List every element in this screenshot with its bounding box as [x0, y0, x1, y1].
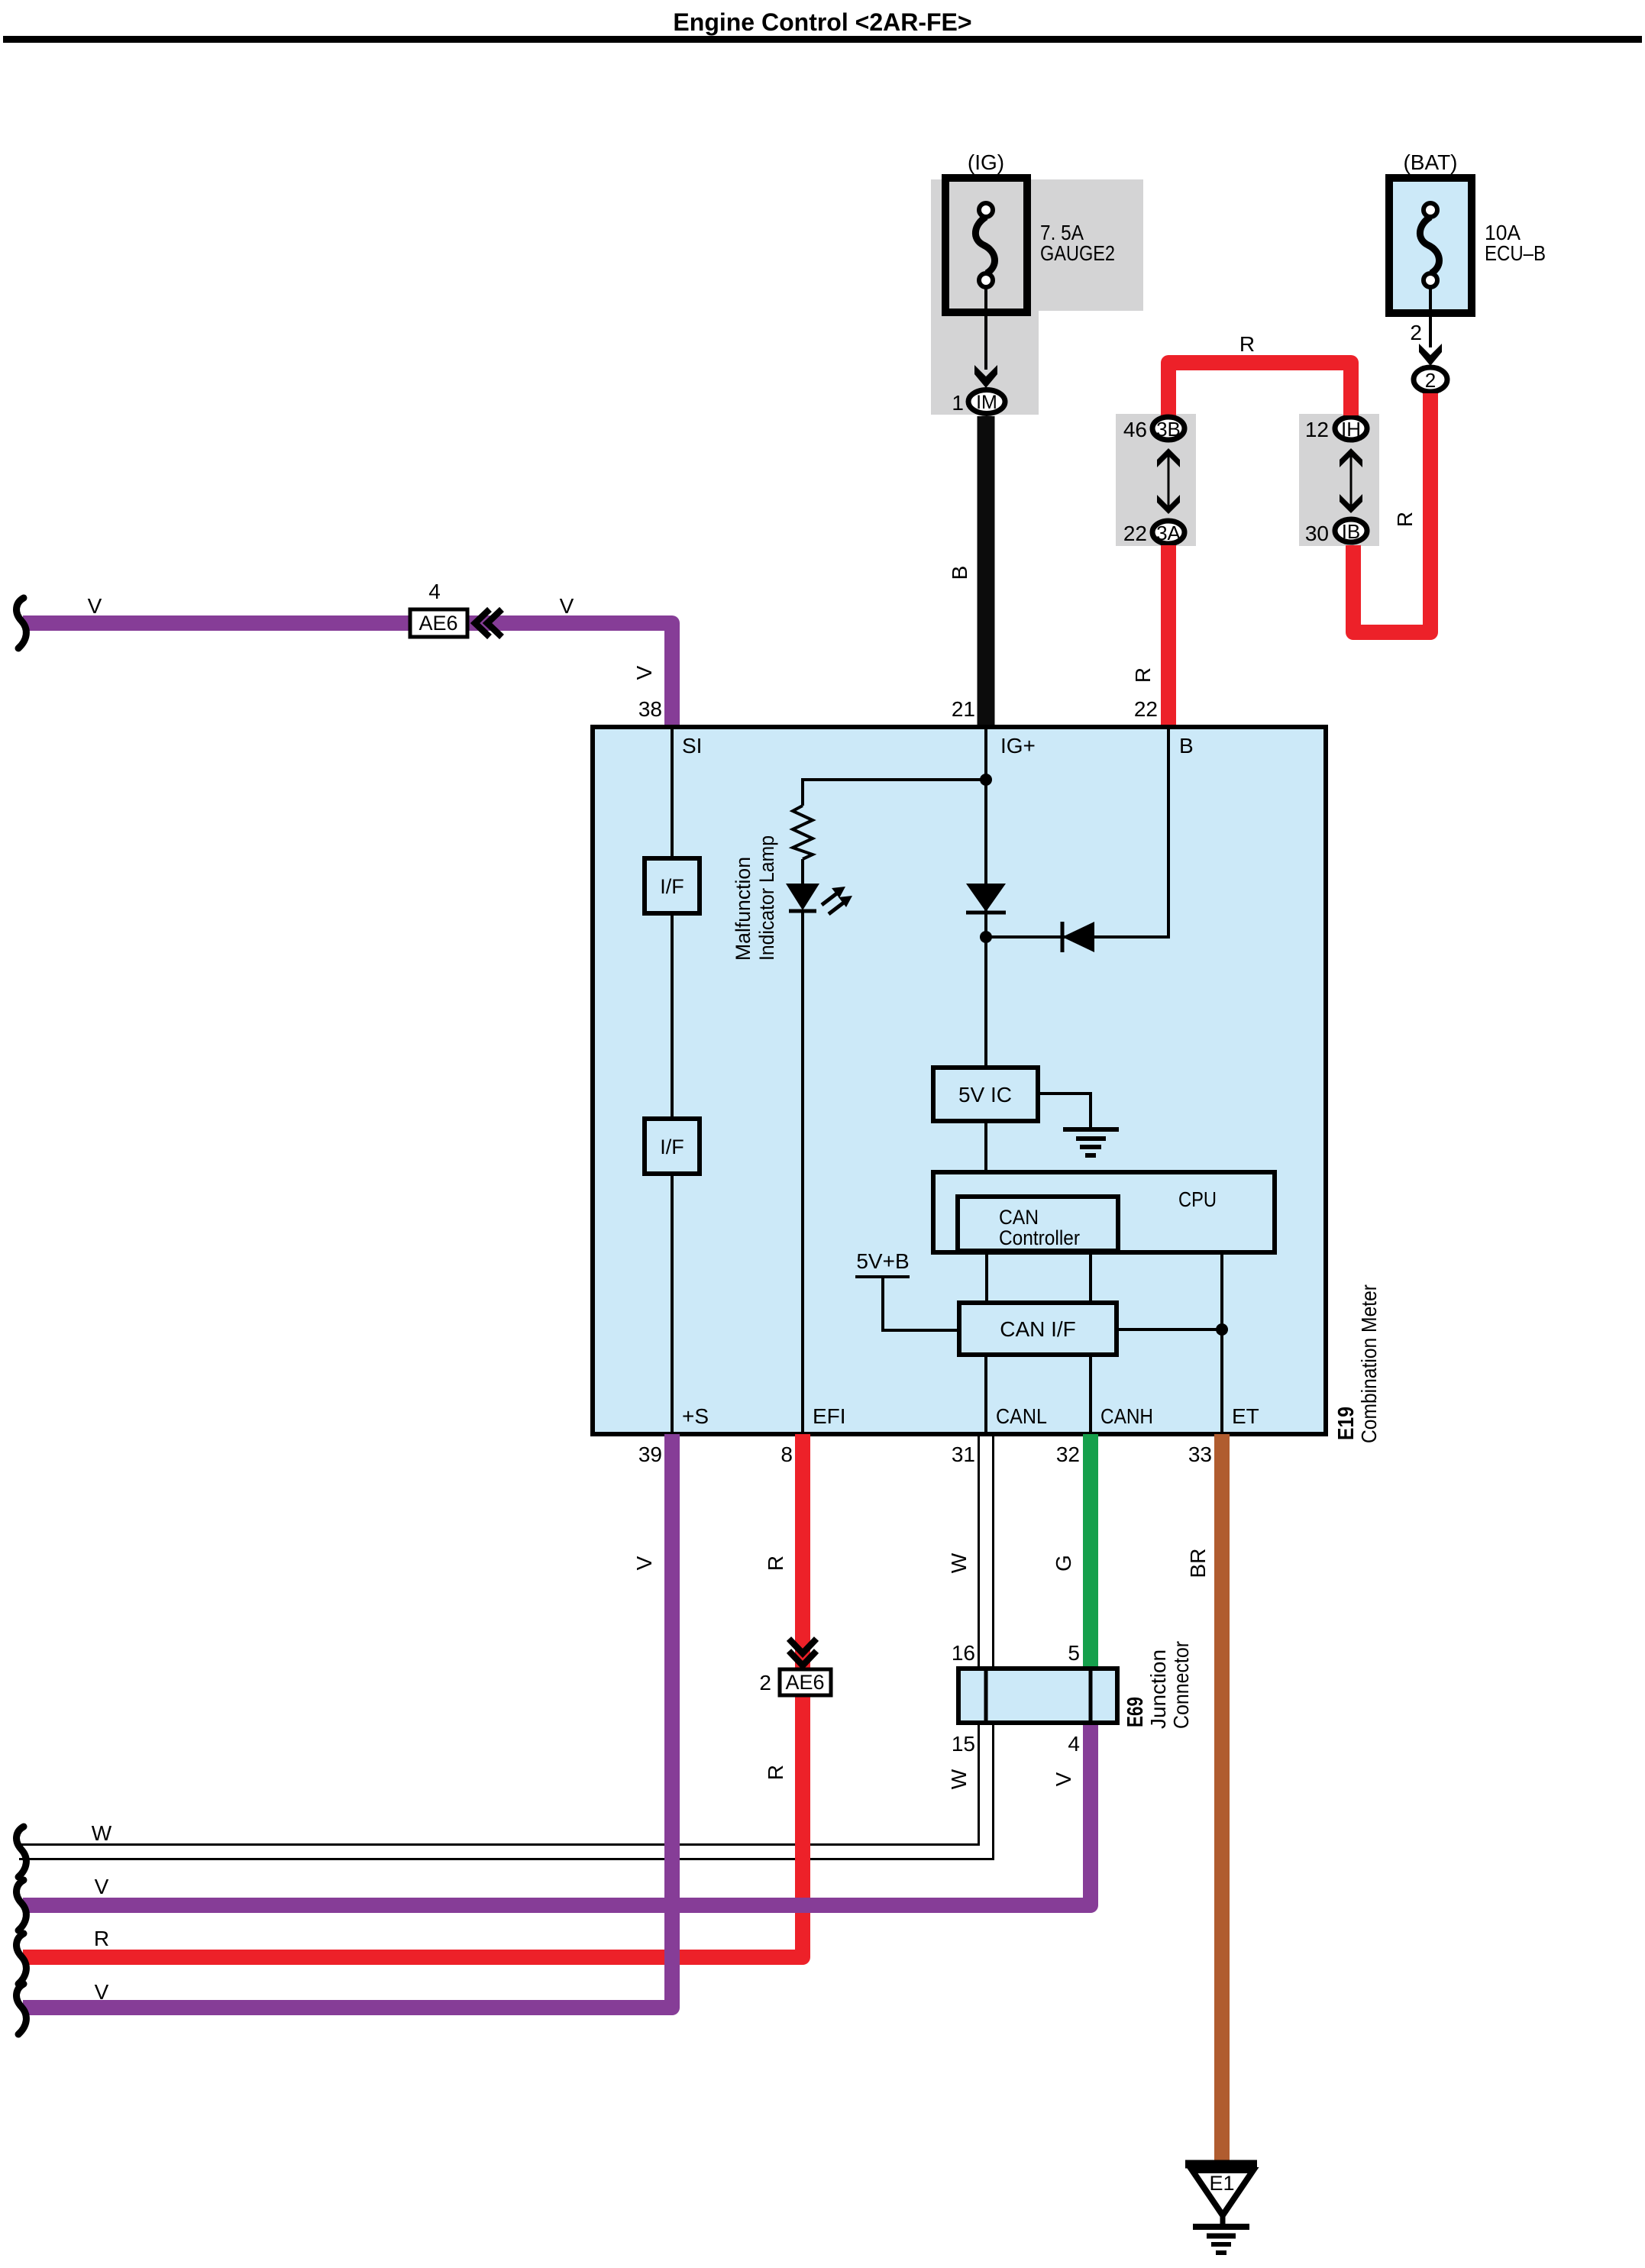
node at diode join	[980, 931, 992, 943]
combination meter box E19	[593, 727, 1326, 1434]
svg-text:CAN: CAN	[999, 1206, 1039, 1229]
svg-text:W: W	[92, 1821, 112, 1845]
svg-text:R: R	[764, 1765, 787, 1780]
svg-text:8: 8	[780, 1443, 793, 1466]
svg-text:46: 46	[1123, 418, 1147, 441]
resistor (MIL)	[793, 806, 813, 859]
svg-text:12: 12	[1305, 418, 1329, 441]
wire node to ET pin	[1220, 1329, 1223, 1434]
svg-text:IG+: IG+	[1000, 734, 1036, 758]
svg-text:Connector: Connector	[1169, 1641, 1193, 1729]
svg-text:R: R	[764, 1556, 787, 1571]
wire V: junction pin 4 down, left to break	[23, 1723, 1091, 1905]
wires CAN controller to CAN I/F	[987, 1252, 1091, 1303]
interface block I/F (upper)	[645, 858, 700, 913]
connector AE6 (pin 2)	[780, 1669, 831, 1695]
internal IG+ line	[984, 727, 987, 1068]
svg-text:SI: SI	[682, 734, 702, 758]
node at IG+ branch	[980, 774, 992, 786]
block CPU	[933, 1172, 1275, 1252]
wire V: left break to AE6 to meter pin 38	[23, 623, 672, 729]
break squiggle (W wire)	[17, 1827, 27, 1877]
svg-text:IH: IH	[1341, 418, 1361, 441]
svg-text:R: R	[1393, 512, 1417, 527]
svg-text:Engine Control <2AR-FE>: Engine Control <2AR-FE>	[673, 8, 971, 36]
svg-text:Controller: Controller	[999, 1226, 1080, 1249]
svg-text:E69: E69	[1123, 1697, 1148, 1727]
wire LED to EFI pin	[801, 911, 804, 1434]
svg-text:R: R	[1239, 332, 1255, 356]
svg-text:39: 39	[638, 1443, 662, 1466]
svg-text:V: V	[1052, 1772, 1075, 1786]
svg-text:I/F: I/F	[660, 875, 684, 898]
wire G (CANH): pin 32 to junction connector	[1083, 1434, 1098, 1669]
svg-text:V: V	[88, 594, 102, 618]
internal CANL line	[984, 1355, 987, 1434]
svg-text:CANH: CANH	[1100, 1404, 1153, 1428]
svg-text:IB: IB	[1342, 520, 1361, 543]
svg-text:2: 2	[1410, 321, 1422, 344]
svg-text:AE6: AE6	[419, 612, 457, 635]
svg-text:CAN I/F: CAN I/F	[1000, 1317, 1076, 1341]
svg-text:V: V	[95, 1875, 109, 1898]
gray zone behind connector IH/IB	[1299, 414, 1379, 546]
svg-text:ET: ET	[1232, 1404, 1259, 1428]
component name Junction Connector	[1146, 1641, 1193, 1729]
svg-text:R: R	[1131, 667, 1155, 683]
svg-text:V: V	[632, 1556, 656, 1570]
gray zone behind GAUGE2 fuse	[931, 179, 1143, 415]
pass-through link 3B-3A	[1157, 448, 1180, 514]
svg-text:E19: E19	[1334, 1407, 1359, 1440]
svg-text:(IG): (IG)	[968, 150, 1004, 174]
svg-text:2: 2	[1425, 369, 1436, 392]
wire from GAUGE2 fuse to IM	[984, 287, 987, 370]
connector oval IH	[1335, 417, 1367, 441]
fuse F2 10A ECU-B (BAT)	[1389, 150, 1546, 313]
svg-text:16: 16	[952, 1641, 975, 1665]
wire R: 3A down to meter pin 22	[1161, 545, 1176, 729]
svg-text:B: B	[948, 566, 971, 580]
wire 5V IC to CPU	[984, 1121, 987, 1172]
svg-text:5V+B: 5V+B	[856, 1249, 909, 1273]
svg-text:3B: 3B	[1156, 418, 1181, 441]
svg-text:22: 22	[1123, 522, 1147, 545]
chevrons into AE6 (red wire)	[789, 1639, 816, 1665]
block CAN Controller	[958, 1197, 1118, 1251]
wire resistor to LED	[801, 859, 804, 884]
diode on B line	[1062, 922, 1094, 952]
svg-text:V: V	[560, 594, 574, 618]
svg-text:22: 22	[1134, 697, 1158, 721]
svg-text:CPU: CPU	[1178, 1187, 1217, 1211]
connector oval 3B	[1152, 417, 1184, 441]
wire B (black) IM to pin 21	[978, 416, 995, 729]
internal CANH line	[1089, 1355, 1092, 1434]
block CAN I/F	[959, 1303, 1117, 1355]
svg-text:BR: BR	[1186, 1549, 1210, 1578]
svg-text:IM: IM	[976, 392, 997, 413]
svg-text:(BAT): (BAT)	[1403, 150, 1457, 174]
connector AE6 (pin 4)	[410, 609, 467, 637]
svg-text:30: 30	[1305, 522, 1329, 545]
internal SI line	[671, 727, 674, 1434]
pass-through link IH-IB	[1340, 448, 1362, 513]
node on ET line	[1216, 1323, 1228, 1336]
diode on IG+ line	[966, 884, 1006, 913]
connector oval 3A	[1152, 521, 1184, 544]
wire W (CANL, white with outline): pin 31 down and left to break	[19, 1434, 994, 1859]
wire from ECU-B fuse to oval 2	[1429, 288, 1432, 347]
svg-text:Junction: Junction	[1146, 1649, 1170, 1729]
wire R: oval 2 down, left, up to IB	[1353, 393, 1430, 632]
wire BR (ET): pin 33 down to E1	[1214, 1434, 1230, 2164]
internal ground	[1063, 1129, 1119, 1155]
break squiggle (top left V wire)	[17, 598, 27, 648]
connector oval 2	[1414, 367, 1447, 392]
wire R (EFI): pin 8 down through AE6, left to break	[23, 1434, 803, 1957]
chevrons into AE6	[475, 609, 502, 637]
svg-text:EFI: EFI	[813, 1404, 846, 1428]
fuse F1 7.5A GAUGE2 (IG)	[945, 150, 1115, 312]
svg-text:5V IC: 5V IC	[958, 1083, 1012, 1107]
svg-text:E1: E1	[1209, 2172, 1234, 2195]
supply 5V+B	[855, 1249, 959, 1330]
label Malfunction Indicator Lamp	[732, 835, 778, 961]
LED malfunction indicator lamp	[786, 884, 852, 914]
svg-text:V: V	[632, 665, 656, 680]
svg-text:5: 5	[1068, 1641, 1080, 1665]
svg-text:3A: 3A	[1156, 522, 1181, 544]
svg-text:33: 33	[1188, 1443, 1212, 1466]
wire R: IH up, left, down to 3B	[1168, 363, 1351, 415]
wire node to CPU	[1220, 1252, 1223, 1329]
svg-text:15: 15	[952, 1732, 975, 1756]
wire 5V IC to internal ground	[1038, 1094, 1091, 1128]
svg-text:GAUGE2: GAUGE2	[1040, 241, 1115, 265]
svg-text:21: 21	[952, 697, 975, 721]
arrow into oval 2	[1419, 344, 1442, 366]
svg-text:Combination Meter: Combination Meter	[1357, 1284, 1381, 1443]
svg-text:I/F: I/F	[660, 1136, 684, 1158]
connector oval IB	[1335, 519, 1367, 543]
svg-text:G: G	[1052, 1555, 1075, 1572]
svg-text:B: B	[1179, 734, 1194, 758]
svg-text:V: V	[95, 1980, 109, 2004]
svg-text:+S: +S	[682, 1404, 709, 1428]
title	[3, 8, 1642, 43]
svg-text:31: 31	[952, 1443, 975, 1466]
wire CAN I/F to ET line	[1117, 1328, 1222, 1331]
break squiggle (V wire 2)	[17, 1984, 27, 2034]
break squiggle (V wire)	[17, 1880, 27, 1930]
svg-text:4: 4	[428, 580, 441, 603]
svg-text:R: R	[94, 1927, 109, 1950]
svg-text:4: 4	[1068, 1732, 1080, 1756]
svg-text:W: W	[947, 1769, 971, 1789]
svg-text:ECU–B: ECU–B	[1485, 241, 1546, 265]
wire branch to MIL resistor	[803, 780, 986, 806]
connector oval IM	[968, 390, 1005, 414]
regulator 5V IC	[933, 1068, 1038, 1121]
svg-text:Malfunction: Malfunction	[732, 857, 755, 961]
svg-text:1: 1	[952, 391, 964, 415]
junction connector E69	[958, 1669, 1117, 1723]
svg-text:32: 32	[1056, 1443, 1080, 1466]
svg-text:2: 2	[759, 1671, 771, 1695]
svg-text:W: W	[947, 1552, 971, 1573]
arrow into IM	[974, 365, 997, 388]
break squiggle (R wire)	[17, 1934, 27, 1984]
wire V (+S): pin 39 down, left to break	[23, 1434, 672, 2008]
gray zone behind connector 3B/3A	[1116, 414, 1196, 546]
svg-text:38: 38	[638, 697, 662, 721]
internal B line from pin 22	[986, 727, 1168, 937]
svg-text:AE6: AE6	[785, 1671, 824, 1694]
svg-text:Indicator Lamp: Indicator Lamp	[755, 835, 778, 961]
svg-text:CANL: CANL	[996, 1404, 1047, 1428]
interface block I/F (lower)	[645, 1119, 700, 1174]
ground E1	[1185, 2164, 1257, 2253]
